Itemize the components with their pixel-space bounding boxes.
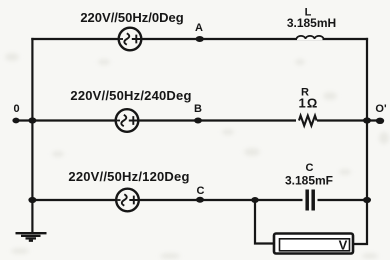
svg-text:C: C [197, 185, 205, 197]
svg-text:3.185mH: 3.185mH [287, 16, 336, 30]
svg-text:220V//50Hz/120Deg: 220V//50Hz/120Deg [68, 169, 189, 184]
svg-text:1Ω: 1Ω [298, 96, 318, 111]
svg-text:V: V [339, 238, 348, 253]
svg-text:A: A [195, 22, 203, 34]
svg-text:0: 0 [13, 103, 19, 115]
svg-text:3.185mF: 3.185mF [285, 174, 333, 188]
svg-text:O': O' [375, 103, 387, 115]
svg-text:220V//50Hz/0Deg: 220V//50Hz/0Deg [80, 10, 183, 25]
svg-text:B: B [194, 103, 202, 115]
svg-text:C: C [306, 162, 314, 174]
svg-text:220V//50Hz/240Deg: 220V//50Hz/240Deg [70, 88, 191, 103]
